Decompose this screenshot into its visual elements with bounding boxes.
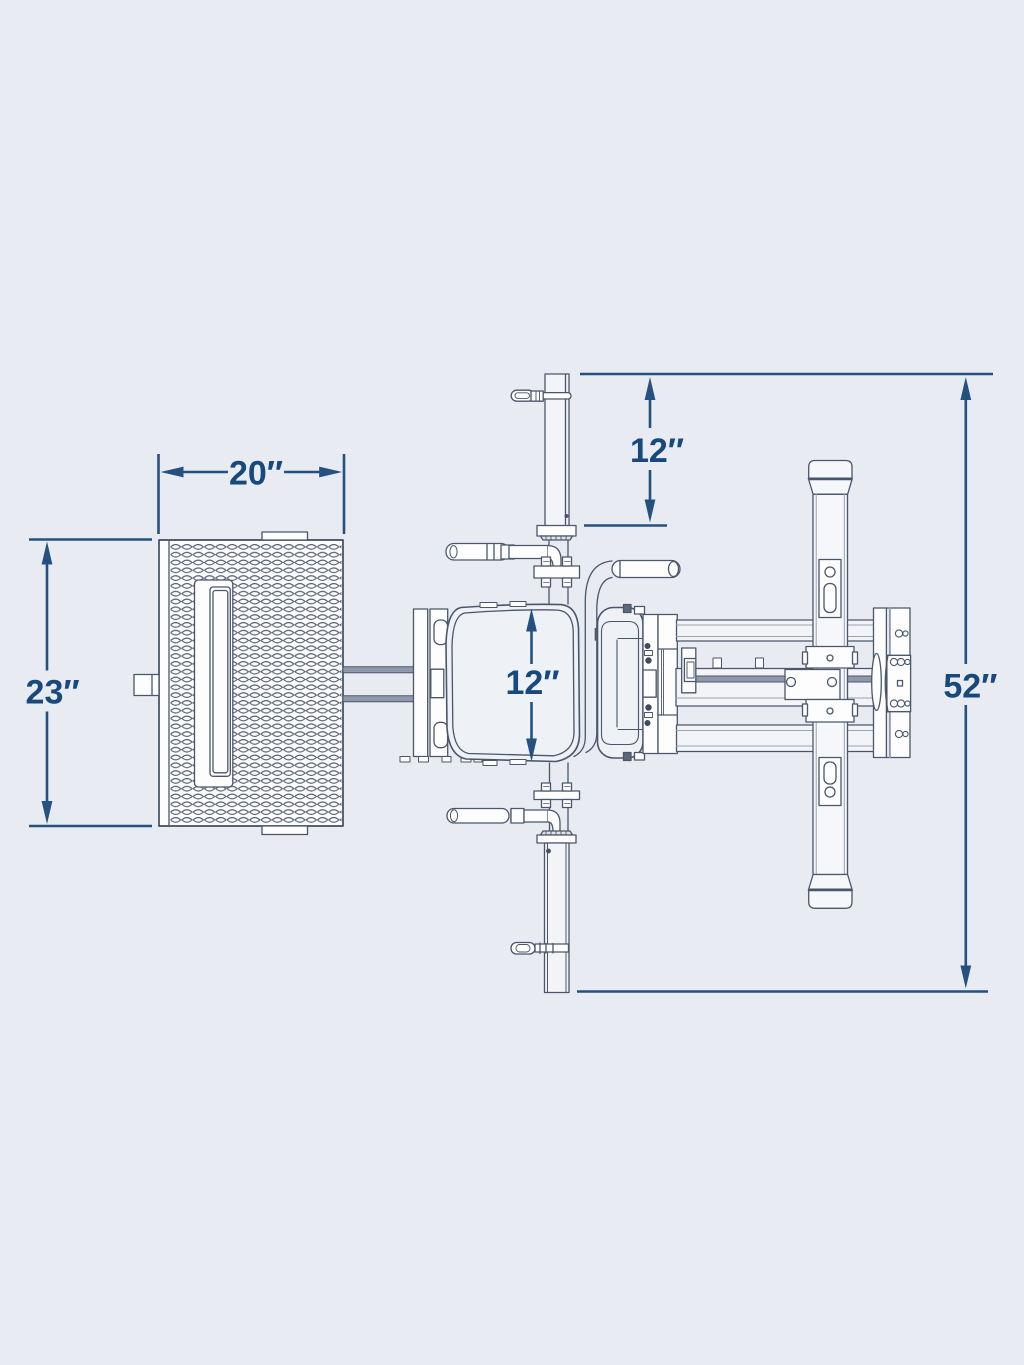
right end plate 2 xyxy=(887,608,911,758)
top left handle xyxy=(446,544,561,568)
dimension 12" top xyxy=(580,374,993,526)
bracket feet xyxy=(400,757,482,763)
svg-text:12″: 12″ xyxy=(630,432,684,470)
beam plate with circles xyxy=(785,670,840,700)
top collar xyxy=(537,526,576,541)
foot plate xyxy=(159,540,343,826)
tower shaft xyxy=(813,494,848,874)
top post pin dot xyxy=(565,514,569,518)
foot plate slot xyxy=(195,580,233,787)
top clamp pin handle xyxy=(511,390,571,401)
right mid plate xyxy=(885,655,910,711)
bottom bolt cluster xyxy=(534,783,580,808)
bottom thin tube xyxy=(550,763,569,831)
foot plate left tab xyxy=(134,675,159,696)
right plate bolts xyxy=(890,630,910,738)
tower clamps xyxy=(803,647,858,723)
tower slot plate top xyxy=(819,560,841,618)
right end plate 1 xyxy=(874,608,887,758)
tower bottom cap xyxy=(809,875,852,909)
bottom collar xyxy=(537,831,576,843)
foot plate top tab xyxy=(262,532,308,540)
svg-text:12″: 12″ xyxy=(505,664,559,702)
right top rail xyxy=(677,620,876,641)
dimension 20" xyxy=(159,454,345,534)
foot plate bottom tab xyxy=(262,826,308,835)
bottom post xyxy=(545,843,570,993)
dimension 23" xyxy=(29,540,152,827)
beam pegs xyxy=(713,658,764,668)
backrest frame plates xyxy=(624,605,678,761)
top right handle xyxy=(574,561,680,757)
bottom clamp pin handle xyxy=(511,943,569,955)
tower top cap xyxy=(809,461,852,495)
beam connector box xyxy=(682,648,696,693)
seat edge tabs xyxy=(480,602,526,766)
svg-text:23″: 23″ xyxy=(26,673,80,711)
bottom post pin dot xyxy=(546,849,551,854)
connecting rails plate to seat frame xyxy=(343,667,414,702)
left seat bracket xyxy=(414,609,448,757)
dimension 12" seat xyxy=(526,609,537,762)
bottom left handle xyxy=(447,809,560,832)
seat pad xyxy=(446,604,580,761)
dimension 52" xyxy=(577,377,988,992)
backrest pad xyxy=(598,608,644,759)
svg-text:20″: 20″ xyxy=(229,455,283,493)
tower slot plate bottom xyxy=(819,758,841,806)
svg-text:52″: 52″ xyxy=(943,668,997,706)
top bolt cluster xyxy=(534,557,580,587)
lens spring xyxy=(872,654,882,711)
center beam xyxy=(676,669,877,707)
right bottom rail xyxy=(677,725,876,752)
top post xyxy=(545,374,569,526)
thin tube below collar xyxy=(549,540,568,604)
